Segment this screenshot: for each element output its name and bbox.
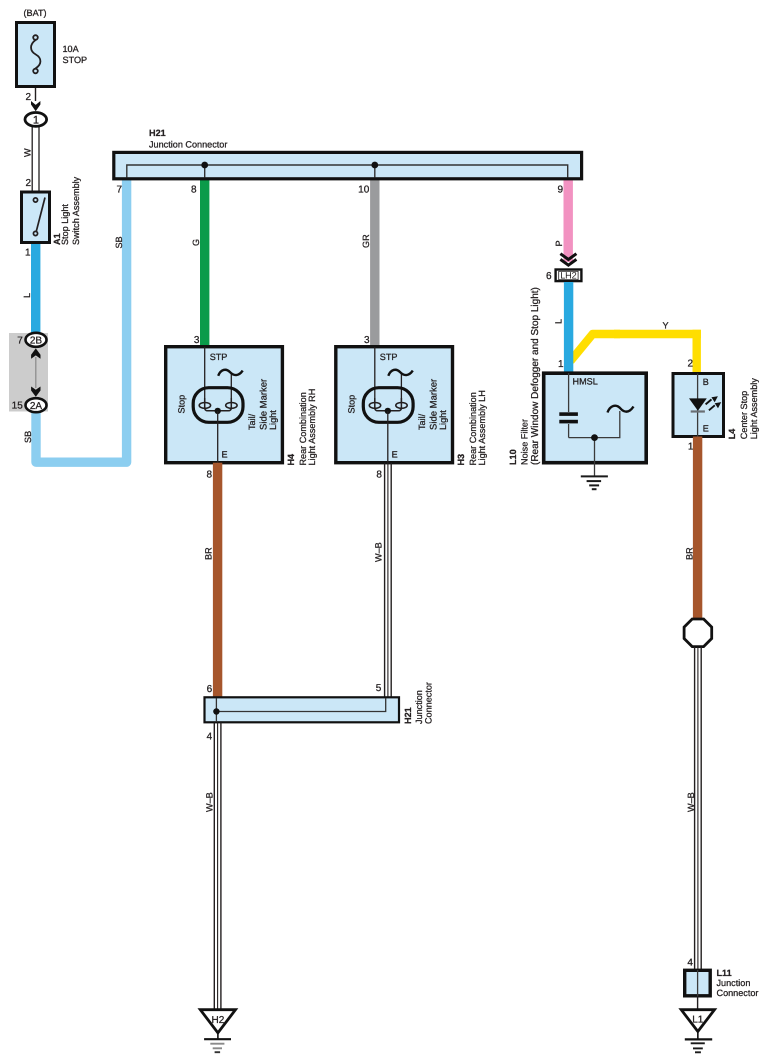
link line — [35, 357, 37, 388]
svg-text:8: 8 — [191, 185, 197, 196]
svg-text:STP: STP — [380, 352, 398, 362]
ground bars L1 — [685, 1038, 712, 1040]
svg-text:Stop Light: Stop Light — [60, 204, 70, 245]
line to E — [217, 411, 219, 463]
wire P (H21 pin 9 to LH2) — [564, 178, 573, 262]
svg-text:STP: STP — [210, 352, 228, 362]
ground bars H2 — [204, 1038, 231, 1040]
splice octagon — [684, 619, 712, 647]
internal bus — [216, 698, 385, 712]
junction connector L11 — [685, 970, 711, 996]
svg-text:4: 4 — [687, 957, 693, 968]
wire W-B (splice to L11 pin 4) — [695, 647, 702, 969]
svg-text:L10: L10 — [508, 449, 518, 465]
junction dot — [213, 708, 219, 714]
svg-text:Light Assembly: Light Assembly — [749, 378, 759, 440]
internal bus bar — [127, 165, 568, 178]
fuse link wire (fuse to arrow) — [35, 73, 37, 101]
ground (L10) — [581, 476, 608, 489]
junction dot pin 10 — [371, 162, 378, 169]
svg-text:4: 4 — [207, 731, 213, 742]
svg-text:Y: Y — [663, 321, 669, 331]
svg-text:1: 1 — [558, 359, 564, 370]
svg-text:B: B — [703, 377, 709, 387]
svg-text:E: E — [222, 449, 228, 459]
svg-text:L: L — [554, 319, 564, 324]
svg-text:8: 8 — [376, 470, 382, 481]
fuse 10A STOP box — [17, 23, 55, 87]
svg-text:Tail/: Tail/ — [247, 413, 257, 430]
svg-text:7: 7 — [17, 336, 23, 347]
arrow into connector 1 — [31, 101, 40, 111]
svg-text:Center Stop: Center Stop — [739, 391, 749, 440]
filament base line — [375, 398, 402, 411]
connector 2B — [26, 333, 47, 347]
svg-text:H21: H21 — [149, 128, 166, 138]
junction dot — [215, 408, 221, 414]
wire SB (switch 2A to H21 pin 7) — [36, 179, 127, 462]
svg-text:SB: SB — [23, 431, 33, 443]
svg-text:10A: 10A — [63, 44, 80, 54]
connector circle 1 — [25, 113, 47, 127]
switch A1 box — [22, 192, 50, 243]
svg-text:Switch Assembly: Switch Assembly — [71, 176, 81, 245]
svg-text:Noise Filter: Noise Filter — [520, 419, 530, 465]
svg-text:2: 2 — [687, 359, 693, 370]
wire L (LH2 to L10 pin 1) — [564, 282, 573, 372]
svg-text:W–B: W–B — [374, 542, 384, 562]
wire W-B (H3 pin 8 to H21 pin 5) — [385, 463, 392, 697]
svg-text:9: 9 — [557, 185, 563, 196]
LED symbol — [689, 398, 707, 410]
junction dot — [591, 434, 598, 441]
svg-text:L4: L4 — [727, 428, 737, 440]
svg-text:2A: 2A — [30, 401, 43, 412]
svg-text:Junction Connector: Junction Connector — [149, 140, 227, 150]
svg-text:Light Assembly RH: Light Assembly RH — [307, 389, 317, 466]
svg-text:2: 2 — [25, 178, 31, 189]
svg-text:LH2: LH2 — [560, 271, 576, 281]
svg-text:Light: Light — [268, 410, 278, 430]
svg-text:Stop: Stop — [177, 395, 187, 414]
junction dot pin 8 — [201, 162, 208, 169]
svg-text:BR: BR — [204, 547, 214, 560]
svg-text:H3: H3 — [456, 454, 466, 466]
wire L (switch to 2B) — [31, 243, 40, 334]
svg-text:2: 2 — [25, 92, 31, 103]
wire W-B (H21 pin 4 to ground H2) — [214, 722, 221, 1009]
stop filament line — [374, 347, 376, 403]
junction dot — [385, 408, 391, 414]
svg-text:15: 15 — [12, 401, 24, 412]
svg-text:BR: BR — [685, 547, 695, 560]
wire Y (branch to L4 pin 2) — [571, 330, 701, 372]
ground triangle H2 — [200, 1010, 235, 1033]
wire BR (L4 pin 1 to splice) — [693, 437, 702, 620]
fuse element — [31, 35, 40, 73]
filament loops — [369, 403, 380, 409]
svg-text:W–B: W–B — [205, 792, 215, 812]
svg-text:L1: L1 — [692, 1015, 704, 1026]
filament base line — [205, 398, 232, 411]
svg-text:6: 6 — [546, 271, 552, 282]
svg-text:Light: Light — [438, 410, 448, 430]
svg-text:Junction: Junction — [717, 978, 751, 988]
svg-text:1: 1 — [25, 248, 31, 259]
switch contacts — [33, 198, 45, 236]
svg-text:G: G — [191, 239, 201, 246]
svg-text:E: E — [392, 449, 398, 459]
svg-text:5: 5 — [376, 683, 382, 694]
svg-text:3: 3 — [364, 335, 370, 346]
svg-text:Stop: Stop — [347, 395, 357, 414]
ground triangle L1 — [681, 1010, 714, 1032]
svg-text:Tail/: Tail/ — [417, 413, 427, 430]
stop filament line — [204, 347, 206, 403]
svg-text:1: 1 — [33, 114, 39, 126]
wire G (H21 pin 8 to H4 pin 3) — [200, 178, 209, 346]
svg-text:(BAT): (BAT) — [24, 8, 47, 18]
line to E — [387, 411, 389, 463]
svg-text:W–B: W–B — [686, 792, 696, 812]
internal pin line — [697, 374, 699, 437]
svg-text:Junction: Junction — [414, 690, 424, 724]
double chevron arrow into LH2 — [560, 254, 576, 266]
gray connector transition box — [9, 333, 48, 412]
svg-text:P: P — [554, 240, 564, 246]
svg-text:Connector: Connector — [424, 682, 434, 724]
junction connector H21 (lower) — [205, 697, 400, 722]
svg-text:E: E — [703, 424, 709, 434]
connector 2A — [26, 398, 47, 412]
coil squiggle — [608, 406, 634, 413]
arrow up into 2B — [31, 348, 40, 358]
svg-text:3: 3 — [194, 335, 200, 346]
svg-text:6: 6 — [207, 684, 213, 695]
connector LH2 — [556, 270, 582, 282]
tail filament line + squiggle — [230, 374, 232, 403]
svg-text:2B: 2B — [30, 336, 43, 347]
svg-text:W: W — [23, 148, 33, 157]
svg-text:10: 10 — [358, 185, 370, 196]
svg-text:Light Assembly LH: Light Assembly LH — [477, 390, 487, 465]
bulb outline — [193, 388, 243, 423]
svg-text:H2: H2 — [212, 1015, 225, 1026]
internal circuit — [569, 373, 620, 476]
center stop light L4 box — [673, 374, 724, 437]
svg-text:STOP: STOP — [63, 55, 88, 65]
svg-text:GR: GR — [361, 234, 371, 248]
svg-text:L: L — [22, 293, 32, 298]
wire GR (H21 pin 10 to H3 pin 3) — [370, 178, 379, 346]
svg-text:Connector: Connector — [717, 988, 759, 998]
capacitor plates — [559, 412, 578, 416]
svg-text:8: 8 — [206, 470, 212, 481]
svg-text:7: 7 — [116, 185, 122, 196]
svg-text:L11: L11 — [717, 968, 732, 978]
wire to ground L1 — [697, 996, 699, 1009]
arrow down into 2A — [31, 387, 40, 397]
wire BR (H4 pin 8 to H21 pin 6) — [213, 463, 222, 698]
svg-text:H4: H4 — [286, 453, 296, 466]
svg-text:H21: H21 — [403, 707, 413, 724]
bulb outline — [363, 388, 413, 423]
wire W (fuse connector 1 to switch pin 2) — [32, 126, 39, 191]
noise filter L10 box — [544, 373, 647, 463]
tail filament line + squiggle — [400, 374, 402, 403]
filament loops — [199, 403, 210, 409]
svg-text:SB: SB — [114, 236, 124, 248]
svg-text:HMSL: HMSL — [573, 377, 598, 387]
svg-text:(Rear Window Defogger and Stop: (Rear Window Defogger and Stop Light) — [530, 287, 541, 465]
